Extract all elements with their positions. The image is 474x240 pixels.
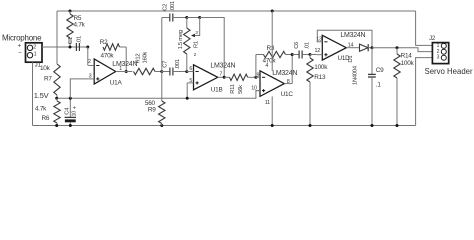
wire R3 left drop xyxy=(255,55,257,78)
wire U1C output up xyxy=(291,55,293,84)
node gnd C4 xyxy=(69,124,72,127)
resistor R2 xyxy=(103,44,120,50)
node gnd R6 xyxy=(55,124,58,127)
node pin5 rail junction xyxy=(186,97,189,100)
node X1 junction xyxy=(86,46,89,49)
svg-text:.001: .001 xyxy=(170,1,176,11)
wire servo pin3 to ground xyxy=(416,58,433,126)
wire mic signal row xyxy=(42,46,88,48)
capacitor C9 xyxy=(371,48,373,74)
wire C6 to U1D pin12 xyxy=(310,54,317,56)
svg-text:LM324N: LM324N xyxy=(210,63,235,70)
svg-text:U1B: U1B xyxy=(211,86,223,93)
pin U1C pin 4 xyxy=(271,11,273,71)
svg-text:LM324N: LM324N xyxy=(340,32,365,39)
svg-text:R7: R7 xyxy=(44,76,52,83)
svg-text:100k: 100k xyxy=(314,64,328,71)
capacitor C7 xyxy=(162,71,170,73)
resistor R13 xyxy=(309,55,311,59)
svg-text:C7: C7 xyxy=(162,61,168,68)
resistor R6 xyxy=(56,98,58,101)
net ground rail xyxy=(33,125,416,127)
capacitor C1 xyxy=(75,43,77,51)
wire D1 out to servo xyxy=(372,48,432,52)
svg-text:7: 7 xyxy=(219,72,222,78)
node U1A output junction xyxy=(125,70,128,73)
wire node N up xyxy=(161,18,163,72)
op-amp U1A xyxy=(94,59,116,84)
svg-text:Microphone: Microphone xyxy=(2,33,42,42)
svg-text:C1: C1 xyxy=(68,37,74,44)
net 1.5V rail xyxy=(57,91,260,99)
svg-text:.001: .001 xyxy=(175,59,181,69)
node N junction xyxy=(160,70,163,73)
resistor R11 xyxy=(224,76,229,78)
wire R7 top feed xyxy=(56,11,58,64)
node R14 top xyxy=(396,46,399,49)
svg-text:U1A: U1A xyxy=(110,79,123,86)
svg-text:160k: 160k xyxy=(142,52,148,64)
svg-text:56k: 56k xyxy=(238,85,244,94)
node gnd R14 xyxy=(396,124,399,127)
svg-text:C6: C6 xyxy=(294,42,300,49)
resistor R7 xyxy=(54,64,60,95)
node gnd C9 xyxy=(371,124,374,127)
wire J1 pin1 to ground xyxy=(32,62,34,125)
node C7 pin6 junction xyxy=(185,70,188,73)
node top rail junction R5 xyxy=(69,10,72,13)
svg-text:U1C: U1C xyxy=(281,91,294,98)
svg-text:LM324N: LM324N xyxy=(112,61,137,68)
wire R2 down to U1A output xyxy=(125,47,127,72)
svg-text:R1: R1 xyxy=(193,41,199,48)
svg-text:R6: R6 xyxy=(42,115,50,122)
svg-text:6: 6 xyxy=(189,66,192,72)
op-amp U1B xyxy=(194,65,218,90)
node gnd R9 xyxy=(160,124,163,127)
svg-text:1N4004: 1N4004 xyxy=(353,65,359,85)
capacitor C2 xyxy=(162,17,170,19)
svg-text:4: 4 xyxy=(265,63,268,69)
svg-text:R2: R2 xyxy=(100,39,108,46)
pin U1C pin 11 xyxy=(271,96,273,125)
svg-text:R13: R13 xyxy=(314,74,326,81)
svg-text:R9: R9 xyxy=(148,107,156,114)
svg-text:D1: D1 xyxy=(348,56,354,63)
svg-text:+: + xyxy=(18,42,22,49)
wire U1A output xyxy=(121,71,132,73)
svg-text:.01: .01 xyxy=(77,36,83,43)
svg-text:10k: 10k xyxy=(40,65,51,72)
capacitor C6 xyxy=(292,54,299,56)
node C4 top on 1.5V rail xyxy=(69,97,72,100)
svg-text:3: 3 xyxy=(437,55,440,61)
node R1 wiper top xyxy=(198,16,201,19)
node divider junction xyxy=(55,97,58,100)
svg-text:2: 2 xyxy=(194,52,197,57)
op-amp U1C xyxy=(260,71,284,97)
node R13 top xyxy=(309,53,312,56)
svg-text:C2: C2 xyxy=(163,4,169,11)
wire loop mid xyxy=(187,17,200,19)
resistor R5 xyxy=(69,11,71,14)
svg-text:R12: R12 xyxy=(135,54,141,64)
svg-text:2: 2 xyxy=(88,59,91,65)
node D1 output junction xyxy=(371,46,374,49)
svg-text:R14: R14 xyxy=(401,53,413,60)
resistor R14 xyxy=(396,48,398,54)
svg-text:.1: .1 xyxy=(376,81,382,88)
svg-text:1.5 meg: 1.5 meg xyxy=(178,30,184,49)
svg-text:10: 10 xyxy=(72,111,78,117)
svg-text:1.5V: 1.5V xyxy=(34,91,50,100)
svg-text:R11: R11 xyxy=(230,84,236,93)
connector J1 microphone xyxy=(26,43,43,62)
svg-text:470k: 470k xyxy=(101,53,115,60)
svg-text:4.7k: 4.7k xyxy=(74,21,86,28)
op-amp U1D xyxy=(322,35,346,60)
svg-text:3: 3 xyxy=(89,73,92,79)
capacitor C4 polarized xyxy=(69,98,71,117)
svg-text:−: − xyxy=(18,50,22,57)
svg-text:C4: C4 xyxy=(64,107,70,115)
svg-text:+: + xyxy=(73,105,77,111)
svg-text:2: 2 xyxy=(33,44,36,50)
svg-text:3: 3 xyxy=(195,30,198,35)
potentiometer R1 xyxy=(186,18,188,29)
svg-text:11: 11 xyxy=(265,100,270,106)
resistor R12 xyxy=(134,68,156,74)
node R5 bottom xyxy=(69,46,72,49)
node gnd R13 xyxy=(309,124,312,127)
svg-text:LM324N: LM324N xyxy=(272,70,297,77)
wire U1A pin3 bias xyxy=(70,79,88,98)
wire U1B pin5 to 1.5V rail xyxy=(186,83,188,98)
svg-text:Servo Header: Servo Header xyxy=(425,67,474,76)
wire V+ drop to servo pin 1 xyxy=(416,11,433,45)
svg-text:9: 9 xyxy=(256,72,259,78)
svg-text:R3: R3 xyxy=(267,45,275,52)
svg-text:J2: J2 xyxy=(429,36,436,42)
svg-text:100k: 100k xyxy=(401,60,415,67)
node U1B output xyxy=(223,76,226,79)
wire U1D feedback xyxy=(317,30,372,47)
connector J2 servo header xyxy=(432,43,448,64)
svg-text:C9: C9 xyxy=(376,67,384,74)
wire loop right xyxy=(200,18,225,78)
resistor R3 xyxy=(256,54,264,56)
node R1 top xyxy=(185,16,188,19)
wire V+ top rail xyxy=(57,10,416,12)
resistor R9 xyxy=(161,72,163,102)
svg-text:1: 1 xyxy=(34,52,37,58)
diode D1 xyxy=(352,47,360,49)
node gnd U1C pin11 xyxy=(271,124,274,127)
wire X1 down to U1A pin2 xyxy=(87,47,89,66)
node top rail junction U1C pin4 xyxy=(271,10,274,13)
node U1C out junction xyxy=(291,53,294,56)
svg-text:4.7k: 4.7k xyxy=(35,106,47,113)
svg-text:.01: .01 xyxy=(304,42,310,49)
pot R1 wiper arrow xyxy=(195,18,200,36)
svg-text:12: 12 xyxy=(315,48,321,54)
node R3 drop junction xyxy=(254,76,257,79)
svg-text:5: 5 xyxy=(189,78,192,84)
svg-text:8: 8 xyxy=(287,79,290,85)
